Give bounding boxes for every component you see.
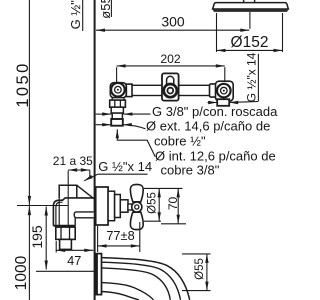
- svg-text:Ø55: Ø55: [194, 258, 206, 280]
- svg-text:21 a 35: 21 a 35: [53, 154, 93, 168]
- svg-text:1050: 1050: [14, 61, 32, 107]
- svg-text:77±8: 77±8: [106, 228, 134, 243]
- svg-text:202: 202: [160, 52, 181, 66]
- svg-text:G ½"x 14: G ½"x 14: [98, 159, 152, 174]
- svg-text:G 3/8" p/con. roscada: G 3/8" p/con. roscada: [152, 104, 278, 119]
- svg-text:G ½"x 14: G ½"x 14: [68, 0, 83, 29]
- svg-text:cobre ½": cobre ½": [154, 134, 206, 149]
- svg-text:ø55: ø55: [98, 0, 113, 19]
- svg-text:195: 195: [29, 225, 45, 249]
- svg-text:Ø55: Ø55: [146, 192, 158, 214]
- svg-text:300: 300: [161, 14, 185, 30]
- svg-text:1000: 1000: [13, 255, 30, 290]
- svg-text:cobre 3/8": cobre 3/8": [161, 163, 220, 178]
- svg-text:Ø ext. 14,6 p/caño de: Ø ext. 14,6 p/caño de: [146, 119, 270, 134]
- svg-text:Ø int. 12,6 p/caño de: Ø int. 12,6 p/caño de: [155, 148, 276, 163]
- svg-text:47: 47: [67, 253, 81, 268]
- svg-text:70: 70: [166, 197, 180, 211]
- svg-text:G ½"x 14: G ½"x 14: [244, 52, 258, 102]
- svg-text:Ø152: Ø152: [231, 34, 269, 51]
